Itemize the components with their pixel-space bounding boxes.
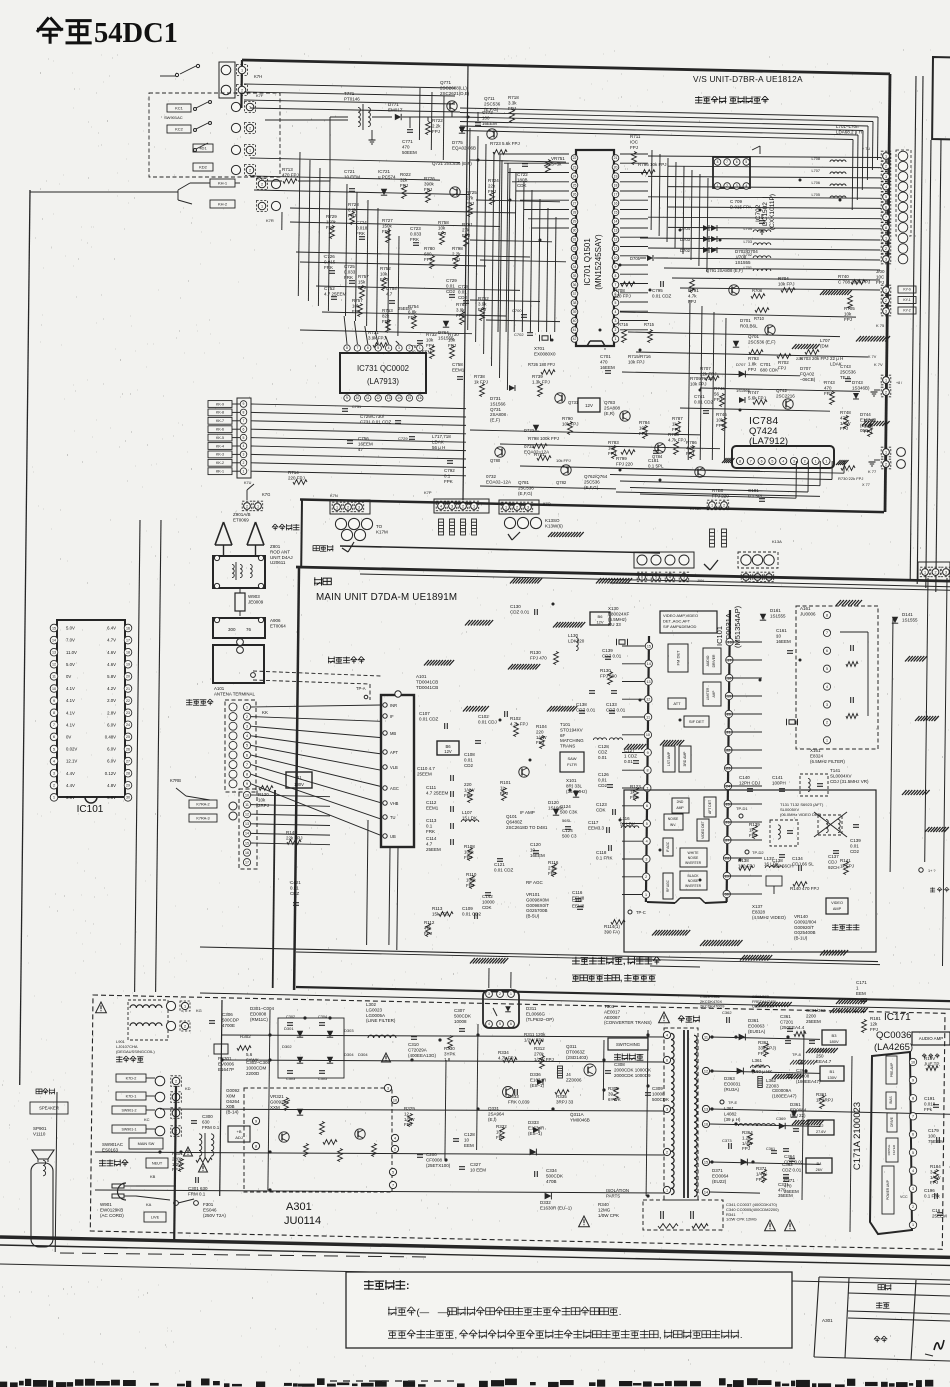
pin circles 9 8 — [252, 1117, 259, 1124]
capacitor C171 1 EEM — [861, 998, 867, 1000]
svg-text:Q311A: Q311A — [570, 1112, 584, 1117]
svg-text:8: 8 — [646, 769, 648, 773]
svg-text:50EEM: 50EEM — [402, 150, 417, 155]
label 图像中频放大、视频检波 — [572, 956, 661, 966]
B boxes right side — [822, 1030, 846, 1045]
svg-text:R704: R704 — [778, 276, 789, 281]
svg-text:C161: C161 — [776, 628, 787, 633]
svg-text:C121: C121 — [494, 862, 505, 867]
svg-text:16EEM: 16EEM — [482, 121, 497, 126]
capacitor C200 CF0008 — [417, 1154, 423, 1156]
resistor R738 1k FPJ — [480, 384, 485, 397]
svg-text:4.1V: 4.1V — [66, 710, 75, 715]
svg-text:K13SO: K13SO — [545, 518, 560, 523]
resistor R791 4.7k — [690, 280, 695, 293]
svg-text:C128: C128 — [464, 1132, 475, 1137]
svg-text:7: 7 — [826, 631, 828, 635]
svg-text:8: 8 — [739, 459, 741, 463]
svg-text:5: 5 — [499, 1022, 501, 1026]
capacitor C771 470 50EEM — [407, 129, 413, 131]
capacitor C756 16EEM 47 — [347, 440, 353, 442]
svg-text:4.7 25EEM: 4.7 25EEM — [324, 291, 347, 296]
IC784 pin row box — [732, 446, 834, 468]
svg-text:10: 10 — [911, 1060, 915, 1064]
resistor R123 — [634, 788, 639, 801]
svg-text:(RM11C): (RM11C) — [250, 1017, 268, 1022]
diode D731 — [509, 385, 515, 391]
svg-text:V/S UNIT-D7BR-A UE1812A: V/S UNIT-D7BR-A UE1812A — [693, 74, 803, 84]
svg-text:1.2k: 1.2k — [742, 1135, 751, 1140]
svg-text:8R) 33L: 8R) 33L — [566, 783, 583, 788]
wire mesh right half — [620, 312, 856, 317]
svg-text:4.7k: 4.7k — [688, 293, 697, 298]
svg-text:10: 10 — [614, 256, 618, 260]
svg-text:1: 1 — [241, 68, 243, 72]
svg-text:EM01Z: EM01Z — [388, 107, 403, 112]
svg-text:C112: C112 — [426, 800, 437, 805]
svg-text:(2SD1403): (2SD1403) — [566, 1055, 588, 1060]
coil L706 — [830, 184, 846, 186]
link J4 ZZ0006 — [558, 1066, 563, 1078]
svg-text:26: 26 — [126, 747, 130, 751]
connector K7U right column pins 1-8 — [881, 151, 891, 161]
svg-text:W903: W903 — [248, 594, 260, 599]
svg-text:KD: KD — [185, 1086, 191, 1091]
capacitor C115 EEM8 — [577, 906, 583, 908]
svg-text:FPJ: FPJ — [408, 315, 416, 320]
svg-text:2SA964: 2SA964 — [488, 1111, 505, 1116]
svg-text:C364: C364 — [796, 1068, 807, 1073]
svg-text:1: 1 — [261, 204, 263, 208]
svg-text:K7D-1: K7D-1 — [126, 1094, 137, 1098]
transistor Q785 — [695, 467, 705, 477]
svg-text:8: 8 — [717, 160, 719, 164]
svg-text:FPJ: FPJ — [466, 201, 474, 206]
svg-text:FPJ: FPJ — [426, 343, 434, 348]
svg-text:5: 5 — [646, 822, 648, 826]
svg-text:C743: C743 — [840, 364, 851, 369]
svg-text:3: 3 — [826, 703, 828, 707]
svg-text:25EEM: 25EEM — [417, 771, 432, 776]
transistor Q784 — [655, 443, 665, 453]
wire secondary rails — [710, 1037, 820, 1039]
top right corner box — [932, 57, 950, 140]
transistor Q782 — [561, 465, 571, 475]
svg-text:300: 300 — [228, 627, 236, 632]
capacitor C731 — [342, 408, 348, 410]
box B6 12V — [590, 612, 610, 625]
svg-text:NOISE: NOISE — [688, 856, 699, 860]
svg-text:R715/R716: R715/R716 — [628, 354, 651, 359]
svg-text:(E,F,G): (E,F,G) — [484, 107, 499, 112]
resistor R335 3RPJ 33 — [555, 1090, 569, 1095]
svg-text:EX0080X0: EX0080X0 — [534, 351, 556, 356]
svg-text:D361: D361 — [748, 1018, 759, 1023]
svg-text:10k FPJ: 10k FPJ — [690, 381, 707, 386]
svg-text:R715: R715 — [644, 322, 655, 327]
svg-text:8: 8 — [912, 1097, 914, 1101]
T131 tank — [770, 820, 798, 846]
svg-text:FPJ: FPJ — [548, 871, 556, 876]
svg-text:C373: C373 — [722, 1138, 732, 1143]
svg-text:0.01 CDZ: 0.01 CDZ — [494, 867, 514, 872]
svg-text:0V: 0V — [66, 674, 71, 679]
resistor R746b — [722, 418, 727, 431]
svg-text:14: 14 — [614, 220, 618, 224]
svg-text:C 709: C 709 — [730, 199, 743, 204]
speaker symbol — [32, 1150, 54, 1159]
svg-text:R728: R728 — [348, 202, 359, 207]
svg-text:16: 16 — [245, 851, 249, 855]
svg-text:A906: A906 — [270, 618, 281, 623]
svg-text:92CH: 92CH — [828, 865, 840, 870]
svg-text:1/4W: 1/4W — [840, 421, 851, 426]
svg-text:C701: C701 — [760, 362, 771, 367]
svg-text:Q781: Q781 — [518, 480, 530, 485]
transistor Q711 2SC536 — [487, 129, 497, 139]
diode D743 — [853, 393, 859, 399]
svg-text:2000CDK 1000CK: 2000CDK 1000CK — [614, 1067, 651, 1072]
svg-text:13: 13 — [52, 651, 56, 655]
svg-text:E1647P: E1647P — [218, 1067, 234, 1072]
resistor R148 22k FPJ — [287, 840, 301, 845]
resistor R753 82k FPJ — [386, 320, 391, 333]
resistor R361 33k FPJ — [764, 1044, 769, 1057]
svg-text:3.9k: 3.9k — [456, 307, 465, 312]
svg-text:LG0005A: LG0005A — [366, 1013, 385, 1018]
svg-text:5.8V: 5.8V — [107, 674, 116, 679]
svg-text:500 C3: 500 C3 — [562, 833, 577, 838]
svg-text:R130: R130 — [530, 650, 541, 655]
regulator transistor Q321 — [279, 1132, 289, 1142]
dashed enclosure top-left — [149, 93, 280, 177]
connector K7R — [257, 179, 268, 190]
svg-text:3: 3 — [527, 505, 529, 509]
svg-text:11: 11 — [366, 396, 370, 400]
svg-text:D303: D303 — [344, 1028, 354, 1033]
svg-text:JE0009: JE0009 — [248, 599, 264, 604]
diode D361 ED0084 — [791, 1111, 797, 1117]
svg-text:APT: APT — [390, 750, 398, 755]
svg-text:6: 6 — [641, 575, 643, 579]
svg-text:680: 680 — [424, 251, 432, 256]
svg-text:FPJ): FPJ) — [756, 1177, 766, 1182]
svg-text:EEA4.7: EEA4.7 — [816, 1059, 832, 1064]
svg-text:C702: C702 — [514, 332, 524, 337]
wire ladder fanout — [251, 404, 466, 409]
label 电源开关 — [99, 1160, 128, 1167]
diode D336 E1634R — [537, 1079, 543, 1085]
svg-text:2: 2 — [885, 165, 887, 169]
third bus line — [610, 583, 950, 590]
svg-text:150k: 150k — [326, 219, 337, 224]
svg-text:POWER AMP: POWER AMP — [886, 1180, 890, 1200]
svg-text:LIMITER: LIMITER — [706, 687, 710, 700]
svg-text:680 CDK: 680 CDK — [760, 367, 778, 372]
svg-text:0.018: 0.018 — [356, 225, 368, 230]
video IF enclosure box — [624, 790, 876, 952]
svg-text:LG0023: LG0023 — [366, 1007, 383, 1012]
svg-text:1000CDM: 1000CDM — [246, 1065, 267, 1070]
svg-text:Q780: Q780 — [490, 458, 501, 463]
optocoupler D311 — [483, 990, 519, 1028]
svg-text:5.6k FPJ: 5.6k FPJ — [748, 395, 766, 400]
svg-text:6: 6 — [646, 804, 648, 808]
link L362 Z2003 — [758, 1077, 763, 1088]
label KH-1 — [210, 179, 235, 187]
isolation dashed box bottom — [643, 1200, 723, 1230]
resistor R715 — [648, 330, 653, 343]
resistor R788 4.7k FPJ — [674, 442, 679, 455]
resistor R116 2.2k — [552, 864, 557, 877]
svg-text:FPJ: FPJ — [714, 397, 722, 402]
svg-text:KK-1: KK-1 — [216, 470, 224, 474]
wire verticals below tuner — [367, 820, 368, 945]
svg-text:C741: C741 — [694, 394, 705, 399]
svg-text:D775: D775 — [452, 140, 463, 145]
capacitor C306 500CDP 4700E — [209, 1020, 215, 1022]
resistor R141 1k FPJ — [844, 862, 849, 875]
resistor R730 10k FPJ — [450, 346, 455, 359]
A161 RC parts — [850, 645, 852, 651]
svg-text:1+ ?: 1+ ? — [928, 869, 936, 873]
svg-text:K 77: K 77 — [868, 469, 877, 474]
label 自动增益控制、自动微调 — [572, 974, 656, 983]
wire KK lower fanout — [251, 795, 330, 797]
svg-text:R714: R714 — [288, 470, 299, 475]
svg-text:1: 1 — [815, 459, 817, 463]
svg-text:26EEM: 26EEM — [784, 1189, 799, 1194]
svg-text:NEUT: NEUT — [152, 1161, 163, 1165]
svg-text:2: 2 — [885, 462, 887, 466]
svg-text:R140 470 FPJ: R140 470 FPJ — [790, 886, 819, 891]
box B1 130V — [286, 772, 312, 788]
svg-text:12: 12 — [646, 698, 650, 702]
second bus line — [360, 574, 950, 587]
title 金鹊54DC1 — [37, 18, 178, 50]
wire horizontals into IC731 pins — [344, 316, 347, 344]
svg-text:R793: R793 — [748, 356, 759, 361]
svg-text:R716: R716 — [618, 322, 629, 327]
capacitor C772 100 16EEM — [475, 122, 481, 124]
svg-text:IC101: IC101 — [715, 626, 724, 646]
svg-text:17: 17 — [614, 192, 618, 196]
svg-text:R104: R104 — [536, 724, 547, 729]
svg-text:R330: R330 — [444, 1046, 455, 1051]
wire verticals to IC731 — [298, 152, 300, 296]
svg-text:CDZ: CDZ — [598, 749, 607, 754]
svg-text:R788: R788 — [668, 432, 679, 437]
svg-text:UNIT D4AJ: UNIT D4AJ — [270, 555, 293, 560]
diode D702 — [703, 247, 709, 253]
wire T771 to D771 — [372, 116, 392, 118]
svg-text:R798: R798 — [452, 246, 463, 251]
svg-text:220k: 220k — [172, 1156, 183, 1161]
connector W903 JE0009 — [235, 593, 245, 611]
svg-text:B4: B4 — [817, 1161, 823, 1166]
IC IC171 body — [870, 1052, 912, 1234]
svg-text:R703 20k FPJ: R703 20k FPJ — [800, 356, 829, 361]
capacitor C364 C7208 — [787, 1074, 793, 1076]
svg-text:3YPK: 3YPK — [444, 1051, 456, 1056]
svg-text:1: 1 — [645, 893, 647, 897]
svg-text:C724: C724 — [356, 220, 367, 225]
diode D161 1S1555 — [760, 614, 766, 620]
svg-text:CDZ 0.01: CDZ 0.01 — [602, 653, 622, 658]
hatch mark right1 — [856, 336, 861, 342]
svg-text:,: , — [455, 1330, 458, 1341]
resistor R754 6.8k FPJ — [412, 316, 417, 329]
resistor R110 100k FPJ — [470, 876, 475, 889]
svg-text:TP-D2: TP-D2 — [752, 850, 764, 855]
wire long verticals mid-left — [135, 520, 140, 992]
MAIN SW box — [129, 1138, 163, 1149]
svg-text:11: 11 — [245, 803, 249, 807]
svg-text:(CXK1011P): (CXK1011P) — [769, 194, 776, 230]
svg-text:PRE-AMP: PRE-AMP — [890, 1063, 894, 1078]
resistor R746 56 FPJ — [720, 394, 725, 407]
connector KY pins — [881, 285, 891, 295]
SPEAKER box — [30, 1102, 68, 1114]
svg-text:3: 3 — [53, 772, 55, 776]
svg-text:8: 8 — [53, 711, 55, 715]
svg-text:6: 6 — [885, 205, 887, 209]
svg-text:D707: D707 — [800, 366, 811, 371]
capacitor C700 — [521, 314, 527, 316]
label 消磁线圈 — [116, 1056, 143, 1062]
coil L130 LDK820 — [576, 637, 578, 650]
IC171 right components — [926, 1066, 938, 1071]
resistor R022 32k FPJ — [402, 186, 407, 199]
svg-text:D743: D743 — [852, 380, 863, 385]
svg-text:R705: R705 — [844, 306, 855, 311]
wire bus lower — [200, 947, 878, 962]
right pin circles — [384, 1084, 391, 1091]
svg-text:2.8V: 2.8V — [107, 710, 116, 715]
svg-text:D161: D161 — [770, 608, 781, 613]
svg-text:4.7: 4.7 — [426, 841, 433, 846]
notice line 1 — [388, 1307, 621, 1318]
svg-text:C361: C361 — [766, 1147, 775, 1151]
svg-text:FPK: FPK — [630, 795, 639, 800]
label KD2 — [193, 163, 213, 171]
capacitor C181 0.1 — [653, 450, 659, 452]
svg-text:1: 1 — [257, 504, 259, 508]
connector K4 row — [637, 555, 647, 565]
svg-text:2: 2 — [726, 184, 728, 188]
svg-text:K 7V: K 7V — [874, 362, 883, 367]
svg-text:CDZ 0.01: CDZ 0.01 — [606, 707, 626, 712]
VIDEO AMP box — [826, 898, 848, 914]
svg-text:C139: C139 — [850, 838, 861, 843]
svg-text:KK-5: KK-5 — [216, 436, 224, 440]
svg-text:0.018: 0.018 — [924, 1101, 936, 1106]
terminal circle — [251, 673, 256, 678]
svg-text:KH-1: KH-1 — [218, 180, 228, 185]
connector K7D — [245, 145, 256, 156]
svg-text:5: 5 — [377, 346, 379, 350]
svg-text:6: 6 — [510, 1022, 512, 1026]
resistor R714 220 FPJ — [293, 480, 307, 485]
svg-text:ATT: ATT — [673, 701, 681, 706]
svg-text:LIVE: LIVE — [151, 1215, 160, 1219]
svg-text:WHITE: WHITE — [688, 851, 700, 855]
svg-text:2: 2 — [499, 992, 501, 996]
svg-text:Q783: Q783 — [604, 400, 616, 405]
svg-text:KH-2: KH-2 — [218, 201, 228, 206]
svg-text:*: * — [604, 348, 606, 354]
svg-text:2: 2 — [804, 459, 806, 463]
svg-text:D705: D705 — [630, 256, 641, 261]
svg-text:L107: L107 — [462, 810, 473, 815]
wire label to pin — [146, 1077, 155, 1079]
connector K7V pins — [881, 375, 891, 385]
svg-text:FPJ 220: FPJ 220 — [616, 461, 633, 466]
svg-text:38: 38 — [573, 301, 577, 305]
svg-text:470: 470 — [840, 415, 848, 420]
svg-text:(MN15245SAY): (MN15245SAY) — [594, 234, 603, 290]
transistor Q780 — [495, 447, 505, 457]
svg-text:R746: R746 — [716, 412, 727, 417]
bridge diode D301 — [297, 1031, 303, 1037]
capacitor C795 0.01 CDZ — [660, 281, 662, 287]
svg-text:VR751: VR751 — [551, 156, 565, 161]
connector KK pins 10-17 — [243, 791, 250, 798]
svg-text:C124: C124 — [562, 828, 573, 833]
svg-text:C327: C327 — [470, 1162, 481, 1167]
K7N circles — [335, 518, 346, 529]
svg-text:INR: INR — [390, 703, 397, 708]
svg-text:T101: T101 — [560, 722, 571, 727]
svg-text:17: 17 — [245, 861, 249, 865]
svg-text:J/00: J/00 — [876, 269, 885, 274]
svg-text:3.9k: 3.9k — [478, 301, 487, 306]
svg-text:L361: L361 — [752, 1058, 763, 1063]
svg-text:T141: T141 — [830, 768, 841, 773]
svg-text:R184: R184 — [930, 1164, 941, 1169]
resistor R784 10k FPJ — [643, 426, 648, 439]
svg-text:D304: D304 — [358, 1052, 368, 1057]
diode D363 EO0031 — [737, 1068, 744, 1075]
svg-text:R101: R101 — [500, 780, 511, 785]
resistors inside regulator — [304, 1144, 309, 1157]
hatch marks right column — [915, 716, 920, 721]
svg-text:FRM 0.1: FRM 0.1 — [202, 1125, 220, 1130]
wire IC702 stubs — [752, 146, 760, 150]
svg-text:R740: R740 — [838, 274, 849, 279]
regulator transistor Q322 — [355, 1129, 365, 1139]
connector K7H — [237, 65, 248, 76]
svg-text:G0092: G0092 — [226, 1088, 240, 1093]
svg-text:1/2W FPJ: 1/2W FPJ — [524, 1037, 544, 1042]
svg-text:FPJ: FPJ — [382, 319, 390, 324]
svg-text:220 FPJ: 220 FPJ — [614, 293, 631, 298]
svg-text:KY-2: KY-2 — [903, 309, 910, 313]
svg-text:E1630R (EU–1): E1630R (EU–1) — [540, 1205, 572, 1210]
resistor R750 2.7k FPJ — [868, 424, 873, 437]
svg-text:IC731 QC0002: IC731 QC0002 — [357, 364, 409, 373]
svg-text:FPJ: FPJ — [930, 1180, 938, 1185]
svg-text:C7201: C7201 — [780, 1019, 794, 1024]
svg-text:1: 1 — [856, 985, 859, 990]
svg-text:20: 20 — [614, 165, 618, 169]
svg-text:10C: 10C — [876, 274, 885, 279]
svg-text:C371: C371 — [784, 1178, 795, 1183]
svg-text:(06.0MHz VIDEO DET): (06.0MHz VIDEO DET) — [780, 812, 822, 817]
svg-text:KA: KA — [146, 1202, 152, 1207]
capacitor C754 4.7 — [389, 300, 395, 302]
svg-text:22: 22 — [126, 699, 130, 703]
